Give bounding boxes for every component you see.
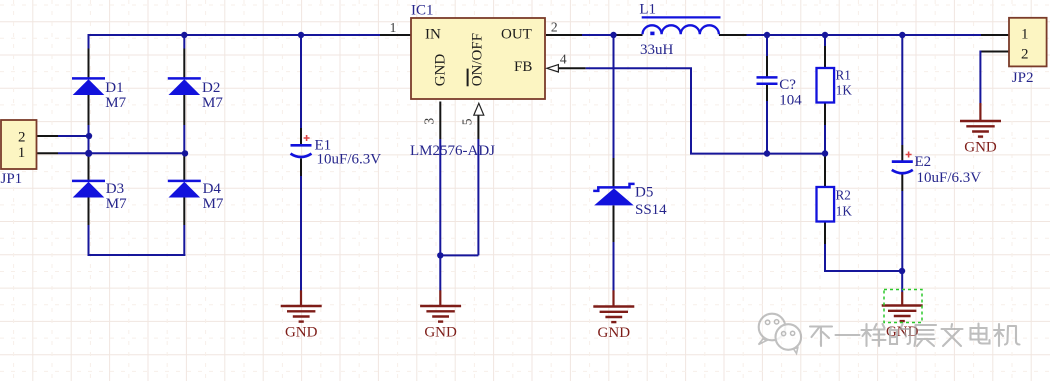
wire D5 column lower: [613, 242, 615, 291]
pin L1 leads: [614, 34, 747, 36]
pin name ON/OFF (rotated, with overbar): [468, 33, 486, 86]
svg-text:L1: L1: [639, 2, 656, 18]
junction dot rail at D5/L1 node: [610, 32, 616, 38]
pin D1 leads: [88, 49, 90, 126]
connector JP1: [1, 120, 37, 169]
wire C? column lower: [766, 101, 768, 154]
svg-text:JP1: JP1: [1, 171, 23, 187]
ground under E2 (selected): [882, 292, 923, 340]
svg-text:1: 1: [390, 20, 397, 35]
svg-text:M7: M7: [203, 196, 224, 212]
watermark text (stylised): [810, 324, 1020, 347]
wire IC1 GND pin down: [439, 139, 441, 291]
svg-text:FB: FB: [514, 59, 532, 75]
pin D3 leads: [88, 153, 90, 225]
pin IC1 pin2 OUT stub: [546, 34, 582, 36]
svg-text:2: 2: [1021, 47, 1029, 63]
pin E2 leads: [901, 145, 903, 191]
svg-text:2: 2: [18, 129, 26, 145]
diode D1: [72, 77, 105, 95]
capacitor C?: [757, 77, 778, 83]
pin JP1 pin2 stub: [37, 135, 59, 137]
svg-text:10uF/6.3V: 10uF/6.3V: [317, 152, 382, 168]
pin JP2 pin2 stub: [981, 51, 1009, 53]
resistor R1: [817, 68, 835, 103]
pin JP1 pin1 stub: [37, 152, 59, 154]
pin D5 leads: [613, 158, 615, 242]
junction dot IC GND / ON-OFF: [437, 252, 443, 258]
pin IC1 pin4 FB stub: [558, 67, 585, 69]
svg-text:M7: M7: [105, 95, 126, 111]
ground under IC1: [420, 290, 461, 340]
ground under JP2: [960, 103, 1001, 156]
pin R2 leads: [824, 154, 826, 245]
pin D4 leads: [183, 153, 185, 225]
junction dot rail at E1 column: [298, 32, 304, 38]
wire bridge bottom rail: [88, 254, 186, 256]
wire JP1 pin2 to bridge: [58, 135, 89, 137]
svg-text:1K: 1K: [836, 83, 853, 98]
wire E2 column upper: [901, 34, 903, 145]
wire E1 column lower: [300, 176, 302, 291]
svg-text:GND: GND: [432, 54, 448, 87]
svg-text:D3: D3: [106, 181, 124, 197]
wire E1 column upper: [300, 34, 302, 128]
wire second bridge column lower: [183, 225, 185, 256]
svg-text:33uH: 33uH: [640, 42, 674, 58]
wire R2 to E2 bottom link: [824, 270, 902, 272]
pin IC1 pin1 IN stub: [380, 34, 411, 36]
junction dot FB net at C?: [764, 150, 770, 156]
svg-text:4: 4: [560, 52, 567, 67]
svg-text:IN: IN: [425, 26, 441, 42]
pin IC1 pin5 ON/OFF stub: [477, 115, 479, 140]
svg-text:3: 3: [422, 118, 437, 125]
diode D3: [72, 180, 105, 198]
wire D5 column upper: [613, 35, 615, 158]
watermark logo chat bubble large: [759, 314, 786, 345]
resistor R2: [817, 187, 835, 222]
svg-text:LM2576-ADJ: LM2576-ADJ: [410, 143, 495, 159]
junction dot rail at C? column: [764, 32, 770, 38]
pin E1 leads: [300, 128, 302, 176]
wire E2 column lower: [901, 191, 903, 292]
svg-text:1K: 1K: [836, 204, 853, 219]
svg-text:10uF/6.3V: 10uF/6.3V: [917, 170, 982, 186]
ground under D5: [593, 290, 634, 341]
pin D2 leads: [183, 49, 185, 126]
junction dot rail at R1 column: [822, 32, 828, 38]
pin FB input arrow: [547, 65, 559, 72]
svg-text:1: 1: [18, 145, 26, 161]
junction dot JP1 pin1 node right: [182, 150, 188, 156]
svg-text:ON/OFF: ON/OFF: [470, 33, 486, 86]
svg-text:JP2: JP2: [1012, 70, 1034, 86]
wire left bridge column upper: [88, 34, 90, 153]
diode D4: [168, 180, 201, 198]
pin JP2 pin1 stub: [981, 34, 1009, 36]
svg-text:104: 104: [779, 92, 802, 108]
inductor L1: [642, 17, 721, 35]
svg-text:R2: R2: [836, 188, 851, 203]
svg-text:E2: E2: [915, 154, 932, 170]
wire R2 bottom down: [824, 244, 826, 272]
svg-text:D4: D4: [203, 181, 222, 197]
wire JP2 pin2 down to ground: [980, 52, 981, 104]
wire top rail right: [747, 34, 982, 36]
wire R1 bottom to FB node: [824, 125, 826, 154]
wire C? column upper: [766, 34, 768, 56]
wire ON/OFF pin down and over to GND net: [440, 139, 478, 255]
junction dot rail at E2 column: [899, 32, 905, 38]
svg-text:IC1: IC1: [411, 2, 434, 18]
junction dot E2 bottom node: [899, 268, 905, 274]
pin IC1 pin3 GND stub: [439, 102, 441, 140]
junction dot JP1 pin2 node: [86, 133, 92, 139]
svg-text:5: 5: [460, 118, 475, 125]
svg-text:M7: M7: [106, 196, 127, 212]
wire R1 column upper: [824, 34, 826, 46]
svg-text:1: 1: [1021, 26, 1029, 42]
svg-text:C?: C?: [779, 77, 796, 93]
wire FB net: [586, 68, 825, 153]
diode D5 schottky: [593, 184, 634, 206]
svg-text:2: 2: [551, 20, 558, 35]
ground under E1: [281, 290, 322, 340]
connector JP2: [1009, 18, 1047, 67]
diode D2: [168, 77, 201, 95]
junction dot JP1 pin1 node left: [85, 150, 92, 157]
svg-text:SS14: SS14: [635, 202, 667, 218]
watermark logo chat bubble small: [776, 324, 802, 353]
svg-text:D1: D1: [105, 80, 123, 96]
svg-text:D2: D2: [202, 80, 220, 96]
pin ON/OFF input arrow: [474, 103, 484, 115]
pin C? leads: [766, 56, 768, 101]
junction dot rail at D2 column: [181, 32, 187, 38]
wire OUT to L1 node: [582, 34, 614, 36]
pin R1 leads: [824, 46, 826, 125]
capacitor E1: [291, 135, 312, 157]
junction dot FB net at R divider: [822, 150, 828, 156]
wire JP1 pin1 to bridge column 2: [58, 152, 184, 154]
svg-text:D5: D5: [635, 185, 653, 201]
selection box around E2 ground: [884, 290, 922, 323]
wire top rail left: [89, 34, 381, 36]
capacitor E2: [892, 152, 913, 174]
svg-text:M7: M7: [202, 95, 223, 111]
wire second bridge column upper: [183, 34, 185, 153]
svg-text:R1: R1: [836, 68, 851, 83]
wire left bridge column lower: [88, 225, 90, 256]
svg-text:OUT: OUT: [501, 26, 532, 42]
op-amp U1 body: regulator IC1 LM2576-ADJ: [411, 18, 545, 99]
